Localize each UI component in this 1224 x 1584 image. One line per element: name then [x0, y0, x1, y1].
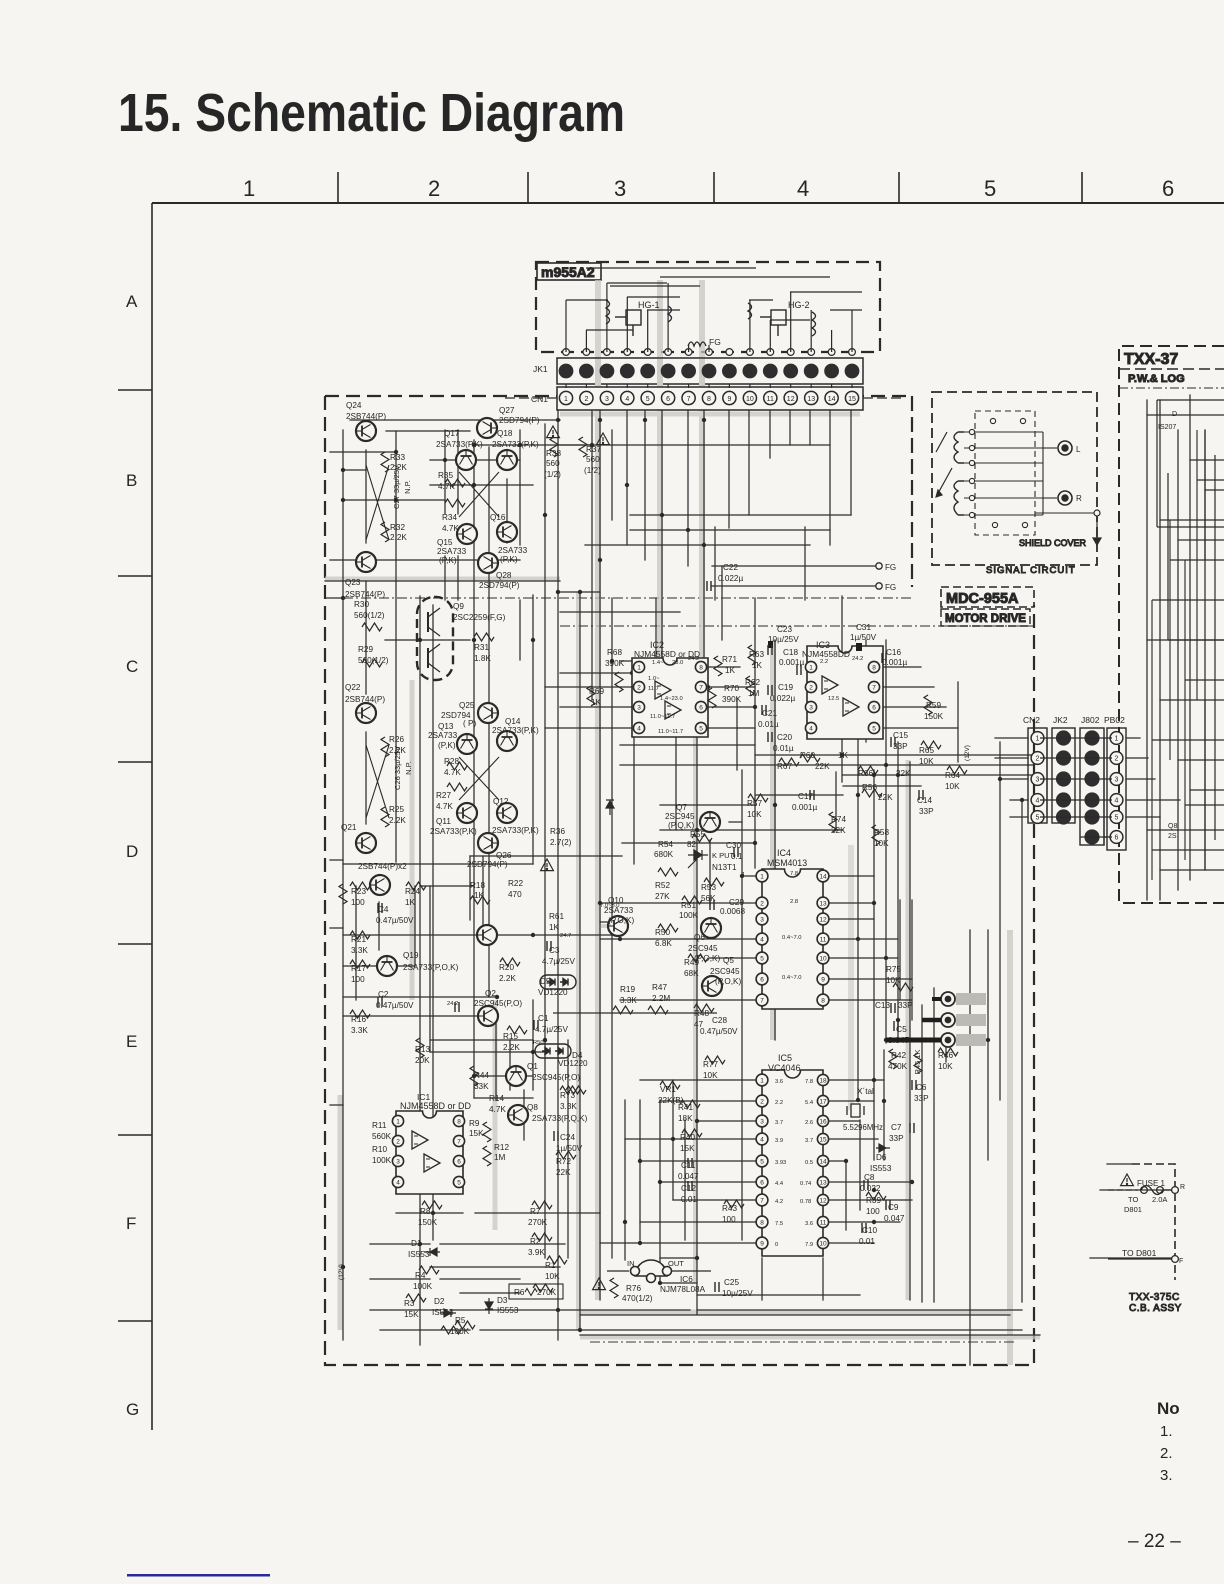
- svg-text:FG: FG: [885, 583, 896, 592]
- wire: [1040, 778, 1112, 780]
- wire: [1126, 778, 1155, 780]
- svg-text:2.0A: 2.0A: [1152, 1195, 1167, 1204]
- wire: [883, 1050, 885, 1160]
- svg-text:R58: R58: [874, 828, 889, 837]
- motor section chain boundary 2: [560, 625, 1034, 627]
- wire: [830, 309, 862, 311]
- svg-text:R: R: [1076, 494, 1082, 503]
- wire: [523, 1090, 525, 1140]
- svg-text:5: 5: [1036, 815, 1040, 822]
- svg-text:4.7K: 4.7K: [489, 1105, 506, 1114]
- wire: [586, 267, 756, 269]
- svg-text:2SC2259(F,G): 2SC2259(F,G): [453, 613, 506, 622]
- svg-text:1: 1: [243, 176, 255, 201]
- svg-text:R36: R36: [550, 827, 565, 836]
- svg-text:4.2: 4.2: [775, 1199, 783, 1205]
- svg-text:11: 11: [767, 396, 774, 403]
- svg-text:390K: 390K: [722, 695, 742, 704]
- svg-text:0.022: 0.022: [860, 1184, 881, 1193]
- wire: [1190, 789, 1224, 791]
- svg-text:SHIELD COVER: SHIELD COVER: [1019, 538, 1087, 548]
- svg-text:A: A: [126, 292, 138, 311]
- wire: [626, 297, 628, 352]
- diode D1: [424, 1248, 440, 1256]
- resistor: [406, 1294, 426, 1302]
- svg-text:R1: R1: [545, 1261, 556, 1270]
- diode D6: [1077, 1047, 1079, 1049]
- wire: [823, 1120, 860, 1122]
- TXX-37 P.W.&LOG dashed box: [1119, 346, 1224, 903]
- wire: [1147, 829, 1224, 831]
- svg-text:4.4: 4.4: [775, 1181, 784, 1187]
- diode D2: [440, 1309, 456, 1317]
- svg-text:22K: 22K: [896, 769, 911, 778]
- svg-text:TO: TO: [1128, 1195, 1138, 1204]
- wire: [607, 282, 667, 284]
- transistor Q10: [608, 916, 628, 936]
- wire: [729, 821, 742, 823]
- wire: [585, 384, 587, 388]
- junction: [856, 793, 860, 797]
- resistor: [800, 754, 820, 762]
- svg-text:1.: 1.: [1160, 1423, 1173, 1440]
- column tick 2|3: [527, 172, 529, 203]
- JK1 pin 4: [620, 364, 635, 379]
- junction: [753, 841, 757, 845]
- wire: [749, 300, 751, 352]
- svg-text:C7: C7: [891, 1123, 902, 1132]
- wire: [626, 410, 628, 545]
- capacitor: [810, 790, 814, 800]
- wire: [865, 640, 867, 742]
- wire: [606, 384, 608, 388]
- junction: [578, 1328, 582, 1332]
- svg-text:10µ/25V: 10µ/25V: [722, 1289, 753, 1298]
- svg-text:3: 3: [614, 176, 626, 201]
- IC IC4 MSM4013: [756, 869, 829, 1009]
- svg-text:11: 11: [820, 1219, 827, 1226]
- svg-text:R47: R47: [652, 983, 667, 992]
- resistor: [362, 659, 382, 667]
- svg-text:R35: R35: [438, 471, 453, 480]
- wire: [823, 1138, 878, 1140]
- wire: [708, 686, 755, 688]
- transistor Q19: [377, 956, 397, 976]
- TXX-37 label underline: [1119, 368, 1224, 370]
- wire: [1040, 816, 1112, 818]
- resistor: [455, 1321, 475, 1329]
- svg-text:R22: R22: [508, 879, 523, 888]
- svg-text:Q16: Q16: [490, 513, 506, 522]
- svg-text:R3: R3: [404, 1299, 415, 1308]
- CN1 pin 9: [723, 391, 736, 404]
- wire: [600, 902, 761, 904]
- shaded trace: [560, 412, 860, 417]
- wire: [769, 384, 771, 388]
- svg-text:100K: 100K: [413, 1282, 433, 1291]
- svg-text:m955A2: m955A2: [541, 264, 595, 280]
- svg-text:18: 18: [819, 1077, 827, 1084]
- svg-text:2.2K: 2.2K: [389, 816, 406, 825]
- svg-text:VC4046: VC4046: [768, 1063, 801, 1073]
- resistor: [422, 1201, 442, 1209]
- transistor Q3: [477, 925, 497, 945]
- JK2 pin 4: [1056, 792, 1071, 807]
- svg-text:Q5: Q5: [723, 956, 734, 965]
- svg-text:20K: 20K: [415, 1056, 430, 1065]
- J802 pin 4: [1084, 792, 1099, 807]
- svg-text:2: 2: [428, 176, 440, 201]
- svg-text:6: 6: [760, 1179, 764, 1186]
- resistor: [947, 766, 967, 774]
- wire: [625, 1138, 763, 1140]
- svg-text:D1: D1: [411, 1239, 422, 1248]
- svg-text:Q19: Q19: [403, 951, 419, 960]
- svg-text:D2: D2: [434, 1297, 445, 1306]
- svg-text:1: 1: [1115, 736, 1119, 743]
- HG-1 coil left: [606, 300, 610, 324]
- svg-text:Q11: Q11: [436, 817, 451, 826]
- blue mark bottom left: [127, 1574, 270, 1577]
- wire: [1103, 738, 1105, 845]
- HG-2 coil left: [748, 303, 752, 319]
- capacitor: [715, 1282, 719, 1292]
- transistor Q22: [356, 703, 376, 723]
- svg-text:N.P.: N.P.: [404, 761, 413, 775]
- wire: [1126, 799, 1180, 801]
- junction: [840, 753, 844, 757]
- wire: [790, 291, 862, 293]
- svg-text:1µ/50V: 1µ/50V: [850, 633, 877, 642]
- svg-text:5: 5: [760, 1158, 764, 1165]
- svg-text:C4: C4: [378, 905, 389, 914]
- diode D7: [606, 800, 614, 815]
- wire: [712, 565, 876, 567]
- capacitor: [554, 1131, 558, 1141]
- wire: [755, 754, 1034, 756]
- svg-text:R11: R11: [372, 1121, 387, 1130]
- svg-text:7.8: 7.8: [805, 1079, 813, 1085]
- node: [969, 429, 974, 434]
- svg-text:0.4~7.0: 0.4~7.0: [782, 935, 802, 941]
- svg-text:C31: C31: [856, 623, 871, 632]
- svg-text:3.6: 3.6: [805, 1221, 813, 1227]
- wire: [607, 1270, 629, 1272]
- wire: [370, 1309, 440, 1311]
- svg-text:Q7: Q7: [676, 803, 687, 812]
- junction: [773, 803, 777, 807]
- junction: [844, 1159, 848, 1163]
- svg-text:MSM4013: MSM4013: [767, 858, 807, 868]
- JK1 pin 9: [722, 364, 737, 379]
- J802 pin 5: [1084, 809, 1099, 824]
- svg-text:R14: R14: [489, 1094, 504, 1103]
- junction: [896, 773, 900, 777]
- svg-text:14: 14: [819, 873, 827, 880]
- wire: [419, 596, 421, 1345]
- svg-text:0.4~7.0: 0.4~7.0: [782, 975, 802, 981]
- wire: [789, 410, 791, 445]
- wire: [699, 335, 701, 337]
- CN1 pin 11: [764, 391, 777, 404]
- capacitor: [882, 653, 886, 663]
- wire: [355, 886, 357, 1000]
- wire: [857, 740, 859, 1098]
- wire: [957, 682, 959, 762]
- svg-text:0.01: 0.01: [681, 1195, 697, 1204]
- svg-text:C12: C12: [681, 1184, 696, 1193]
- wire: [933, 988, 935, 1302]
- wire: [430, 1039, 533, 1041]
- svg-text:C10: C10: [862, 1226, 877, 1235]
- resistor: [748, 794, 768, 802]
- svg-text:Q8: Q8: [527, 1103, 538, 1112]
- svg-text:0.47µ/50V: 0.47µ/50V: [376, 916, 414, 925]
- junction: [695, 828, 699, 832]
- junction: [472, 638, 476, 642]
- svg-text:1.8K: 1.8K: [474, 654, 491, 663]
- svg-text:IC5: IC5: [778, 1053, 792, 1063]
- junction: [740, 874, 744, 878]
- svg-text:1: 1: [396, 1118, 400, 1125]
- svg-text:14: 14: [819, 1158, 827, 1165]
- junction: [625, 483, 629, 487]
- svg-text:390K: 390K: [605, 659, 625, 668]
- wire: [385, 639, 470, 641]
- wire: [325, 580, 560, 582]
- svg-text:MOTOR DRIVE: MOTOR DRIVE: [945, 613, 1026, 625]
- wire: [672, 1080, 674, 1200]
- junction: [431, 1211, 435, 1215]
- resistor: [724, 1200, 744, 1208]
- svg-text:5: 5: [760, 955, 764, 962]
- transistor Q6: [701, 918, 721, 938]
- svg-text:(1/2): (1/2): [584, 466, 601, 475]
- svg-text:Q2: Q2: [485, 989, 496, 998]
- svg-text:No: No: [1157, 1399, 1180, 1418]
- J802 pin 3: [1084, 771, 1099, 786]
- resistor: [483, 1146, 491, 1166]
- svg-text:2: 2: [760, 900, 764, 907]
- svg-text:C17: C17: [798, 792, 813, 801]
- svg-text:TXX-37: TXX-37: [1124, 351, 1178, 368]
- svg-text:1: 1: [637, 664, 641, 671]
- svg-text:Q23: Q23: [345, 578, 361, 587]
- svg-text:N13T1: N13T1: [712, 863, 737, 872]
- svg-text:Q8: Q8: [1168, 823, 1177, 830]
- wire: [822, 1258, 824, 1300]
- junction: [623, 1220, 627, 1224]
- wire: [1021, 800, 1023, 1302]
- wire: [1126, 816, 1160, 818]
- resistor: [532, 1233, 552, 1241]
- wire: [1177, 430, 1179, 890]
- wire: [672, 1270, 711, 1272]
- resistor: [938, 1048, 958, 1056]
- svg-text:R27: R27: [436, 791, 451, 800]
- svg-text:2: 2: [1036, 756, 1040, 763]
- svg-text:F: F: [1179, 1258, 1183, 1265]
- wire: [600, 938, 761, 940]
- m955A2 pin 9: [726, 349, 733, 356]
- transistor Q1: [506, 1066, 526, 1086]
- junction: [590, 443, 594, 447]
- wire: [831, 330, 833, 352]
- TXX bracket: [1168, 473, 1224, 640]
- wire: [532, 1000, 534, 1090]
- svg-text:FG: FG: [709, 337, 721, 347]
- svg-text:IS553: IS553: [870, 1164, 892, 1173]
- junction: [630, 671, 634, 675]
- svg-text:PB02: PB02: [1104, 715, 1125, 725]
- wire: [630, 514, 851, 516]
- wire: [714, 527, 716, 600]
- wire: [626, 384, 628, 388]
- wire: [708, 384, 710, 388]
- JK2 pin 2: [1056, 750, 1071, 765]
- svg-text:6: 6: [666, 396, 670, 403]
- svg-text:6: 6: [699, 704, 703, 711]
- resistor: [714, 656, 722, 676]
- svg-text:10: 10: [746, 396, 754, 403]
- test point TP2: [941, 1013, 986, 1027]
- svg-text:8: 8: [699, 664, 703, 671]
- svg-text:470(1/2): 470(1/2): [622, 1294, 653, 1303]
- resistor: [447, 783, 467, 791]
- transistor Q8: [508, 1105, 528, 1125]
- junction: [872, 1188, 876, 1192]
- wire: [995, 757, 1028, 759]
- wire: [660, 1282, 697, 1284]
- wire: [886, 1039, 948, 1041]
- svg-text:Q18: Q18: [497, 429, 513, 438]
- svg-text:82: 82: [687, 840, 697, 849]
- resistor: [893, 983, 913, 991]
- JK1 pin 12: [783, 364, 798, 379]
- svg-text:0.022µ: 0.022µ: [770, 694, 795, 703]
- svg-text:0.47µ/50V: 0.47µ/50V: [700, 1027, 738, 1036]
- wire: [822, 918, 874, 920]
- wire: [457, 430, 459, 514]
- svg-text:1: 1: [760, 1077, 764, 1084]
- wire: [1100, 1189, 1175, 1191]
- svg-text:4: 4: [760, 936, 764, 943]
- wire: [343, 863, 533, 865]
- CN1 pin 14: [825, 391, 838, 404]
- shaded trace: [770, 640, 776, 1040]
- svg-text:10K: 10K: [919, 757, 934, 766]
- capacitor: [912, 1080, 916, 1090]
- svg-text:R32: R32: [390, 523, 405, 532]
- svg-text:C.B. ASSY: C.B. ASSY: [1129, 1303, 1182, 1314]
- shaded trace: [699, 280, 705, 690]
- wire: [1159, 400, 1161, 900]
- main board dashed outline: [325, 396, 1034, 1365]
- svg-text:C19: C19: [778, 683, 793, 692]
- svg-text:5.4: 5.4: [805, 1100, 814, 1106]
- svg-text:TXX-375C: TXX-375C: [1129, 1292, 1180, 1303]
- wire: [823, 1160, 846, 1162]
- svg-text:8: 8: [760, 1219, 764, 1226]
- wire: [823, 1100, 874, 1102]
- capacitor: [688, 1158, 692, 1168]
- shaded trace: [580, 1335, 1040, 1340]
- svg-text:11.0~11.7: 11.0~11.7: [658, 729, 683, 735]
- junction: [341, 498, 345, 502]
- wire: [1040, 737, 1112, 739]
- capacitor: [688, 1181, 692, 1191]
- resistor: [872, 825, 880, 845]
- svg-text:4.7µ/25V: 4.7µ/25V: [535, 1025, 568, 1034]
- resistor: [445, 479, 465, 487]
- PUT N13T1: [688, 850, 708, 868]
- svg-text:33P: 33P: [919, 807, 934, 816]
- capacitor: [768, 732, 772, 742]
- svg-text:12: 12: [819, 1197, 827, 1204]
- wire: [580, 1314, 1010, 1316]
- svg-text:560K: 560K: [372, 1132, 392, 1141]
- wire: [414, 886, 416, 966]
- svg-text:Q24: Q24: [346, 401, 362, 410]
- row tick F|G: [118, 1320, 152, 1322]
- svg-text:C23: C23: [777, 625, 792, 634]
- resistor: [648, 1006, 668, 1014]
- JK1 pin 6: [661, 364, 676, 379]
- row tick C|D: [118, 761, 152, 763]
- wire: [899, 900, 901, 1000]
- resistor: [350, 931, 370, 939]
- wire: [620, 660, 656, 662]
- wire: [712, 585, 876, 587]
- svg-text:R70: R70: [724, 684, 739, 693]
- svg-text:4: 4: [809, 725, 813, 732]
- jack R: [1058, 491, 1072, 505]
- junction: [472, 443, 476, 447]
- svg-text:10K: 10K: [945, 782, 960, 791]
- junction: [884, 763, 888, 767]
- svg-text:27K: 27K: [655, 892, 670, 901]
- wire: [557, 410, 559, 1340]
- m955A2 pin 5: [644, 349, 651, 356]
- svg-text:R26: R26: [389, 735, 404, 744]
- svg-text:CN1: CN1: [531, 394, 548, 404]
- resistor: [914, 1053, 922, 1073]
- wire: [600, 921, 620, 923]
- wire: [655, 598, 657, 660]
- capacitor: [734, 847, 738, 857]
- wire: [1040, 799, 1112, 801]
- svg-text:16: 16: [819, 1118, 827, 1125]
- left ruler line: [151, 203, 153, 1430]
- svg-text:11.0~11.7: 11.0~11.7: [650, 714, 675, 720]
- wire: [611, 598, 613, 1258]
- svg-text:– 22 –: – 22 –: [1128, 1531, 1181, 1552]
- svg-text:R68: R68: [607, 648, 622, 657]
- resistor: [579, 437, 587, 457]
- m955A2 pin 2: [583, 349, 590, 356]
- resistor: [556, 1151, 576, 1159]
- junction: [531, 638, 535, 642]
- wire: [809, 410, 811, 445]
- svg-text:R25: R25: [389, 805, 404, 814]
- svg-text:5: 5: [457, 1179, 461, 1186]
- junction: [884, 956, 888, 960]
- transistor Q15: [457, 524, 477, 544]
- svg-text:18K: 18K: [678, 1114, 693, 1123]
- resistor: [708, 688, 716, 708]
- wire: [1126, 757, 1148, 759]
- wire: [330, 559, 520, 561]
